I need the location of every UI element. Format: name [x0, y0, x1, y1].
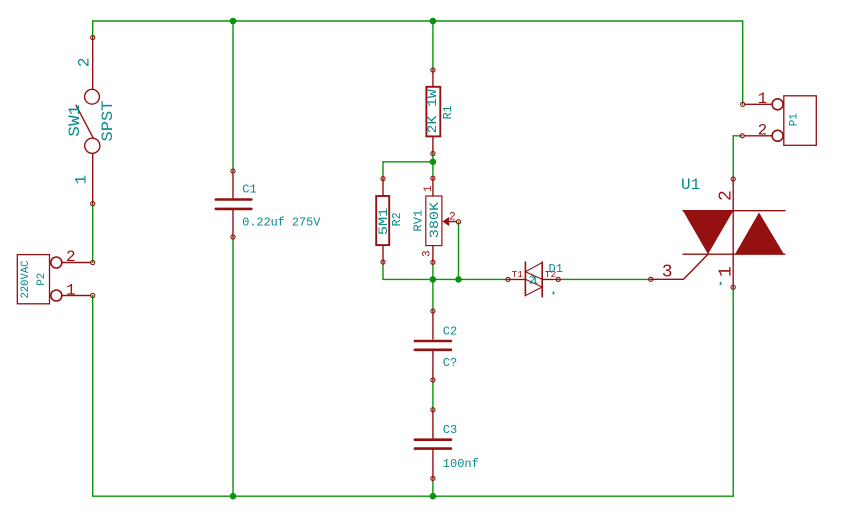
svg-text:U1: U1	[681, 176, 700, 194]
wire top rail	[93, 20, 743, 22]
pin number 1 of P1	[758, 90, 768, 108]
svg-text:380K: 380K	[427, 202, 442, 239]
value SPST	[99, 101, 117, 142]
svg-text:1: 1	[758, 90, 768, 108]
svg-text:3: 3	[662, 263, 673, 283]
wire P1 pin 2 jog to U1 pin 2	[733, 136, 742, 179]
resistor R2	[376, 177, 389, 265]
junction top rail R1	[430, 18, 437, 25]
field mark of D1	[553, 292, 555, 295]
wire RV1 pin 3 to C2	[432, 262, 434, 311]
svg-text:1: 1	[531, 274, 538, 288]
wire top rail to R1	[432, 21, 434, 70]
wire bottom rail	[93, 495, 734, 497]
svg-text:2: 2	[758, 121, 768, 139]
svg-text:SW1: SW1	[66, 105, 84, 137]
pin number 2 of P2	[66, 248, 76, 266]
label RV1	[411, 210, 425, 232]
wire C1 to bottom rail	[232, 237, 234, 496]
potentiometer RV1	[426, 176, 461, 264]
capacitor C1	[216, 169, 252, 239]
connector P2	[17, 255, 95, 304]
wire SW1 pin 1 to P2 pin 2	[92, 204, 94, 263]
wire left rail to SW1 pin 2	[92, 21, 94, 38]
value C?	[443, 356, 457, 370]
value 0.22uf 275V	[242, 215, 321, 229]
triac U1	[649, 177, 785, 290]
wire down to R2 top	[382, 162, 384, 179]
value 220VAC	[20, 260, 32, 298]
label D1	[549, 262, 563, 276]
svg-text:D1: D1	[549, 262, 563, 276]
wire top rail to C1	[232, 21, 234, 171]
svg-text:220VAC: 220VAC	[20, 260, 32, 298]
pin number 2 of P1	[758, 121, 768, 139]
svg-text:1: 1	[73, 175, 91, 185]
svg-text:0.22uf 275V: 0.22uf 275V	[242, 215, 321, 229]
wire diac T2 to U1 gate	[558, 278, 651, 280]
pin name T1 of D1	[512, 269, 524, 280]
svg-text:5M1: 5M1	[376, 207, 391, 235]
connector P1	[740, 96, 816, 146]
capacitor C2	[415, 309, 451, 382]
value 2K 1W	[425, 89, 440, 133]
pin number 2 of RV1	[449, 212, 456, 224]
label R2	[390, 212, 404, 226]
svg-text:C?: C?	[443, 356, 457, 370]
svg-text:RV1: RV1	[411, 210, 425, 232]
label P1	[789, 113, 801, 127]
pin name T2 of D1	[545, 269, 557, 280]
value of D1	[529, 274, 539, 288]
svg-text:R1: R1	[441, 105, 455, 119]
pin number 1 of P2	[66, 282, 76, 300]
svg-text:P2: P2	[36, 273, 48, 286]
svg-text:C1: C1	[242, 182, 256, 196]
svg-text:2: 2	[449, 212, 456, 224]
svg-text:P1: P1	[789, 113, 801, 127]
label C3	[443, 423, 457, 437]
svg-text:SPST: SPST	[99, 101, 117, 142]
wire branch to R2	[383, 161, 433, 163]
svg-text:3: 3	[422, 250, 434, 257]
wire R1 to RV1 pin 1	[432, 154, 434, 179]
svg-text:2: 2	[66, 248, 76, 266]
svg-text:2K 1W: 2K 1W	[425, 89, 440, 133]
value 5M1	[376, 207, 391, 235]
wire C3 to bottom rail	[432, 478, 434, 496]
value 100nf	[443, 457, 479, 471]
label P2	[36, 273, 48, 286]
junction bottom rail C1	[230, 493, 237, 500]
label C1	[242, 182, 256, 196]
pin number 2 of U1	[716, 190, 736, 201]
capacitor C3	[415, 408, 451, 481]
pin number 3 of U1	[662, 263, 673, 283]
pin number 2 of SW1	[76, 57, 94, 67]
svg-text:2: 2	[716, 190, 736, 201]
svg-text:C3: C3	[443, 423, 457, 437]
pin number 1 of U1	[717, 266, 737, 277]
svg-text:C2: C2	[443, 325, 457, 339]
wire C2 to C3	[432, 380, 434, 410]
wire P2 pin 1 down left rail	[92, 296, 94, 497]
label C2	[443, 325, 457, 339]
value 380K	[427, 202, 442, 239]
pin number 1 of RV1	[423, 185, 435, 192]
junction gate rail RV1 pin 2	[455, 276, 462, 283]
junction top rail C1	[230, 18, 237, 25]
switch SW1	[76, 35, 100, 205]
wire gate rail to diac T1	[383, 278, 508, 280]
svg-text:1: 1	[66, 282, 76, 300]
label U1	[681, 176, 700, 194]
svg-text:100nf: 100nf	[443, 457, 479, 471]
field mark of U1	[720, 282, 722, 285]
pin number 3 of RV1	[422, 250, 434, 257]
svg-text:1: 1	[717, 266, 737, 277]
svg-text:R2: R2	[390, 212, 404, 226]
label SW1	[66, 105, 84, 137]
wire U1 pin 1 down to bottom rail	[732, 287, 734, 496]
svg-text:2: 2	[76, 57, 94, 67]
junction gate rail RV1 pin 3	[430, 276, 437, 283]
label R1	[441, 105, 455, 119]
junction R1 bottom branch	[430, 159, 437, 166]
svg-text:T1: T1	[512, 269, 524, 280]
diac D1	[506, 262, 560, 297]
svg-text:1: 1	[423, 185, 435, 192]
pin number 1 of SW1	[73, 175, 91, 185]
wire R2 bottom down	[382, 262, 384, 279]
wire RV1 pin 2 down	[458, 222, 460, 280]
wire right rail to P1 pin 1	[742, 21, 744, 104]
junction bottom rail C3	[430, 493, 437, 500]
resistor R1	[426, 68, 440, 156]
